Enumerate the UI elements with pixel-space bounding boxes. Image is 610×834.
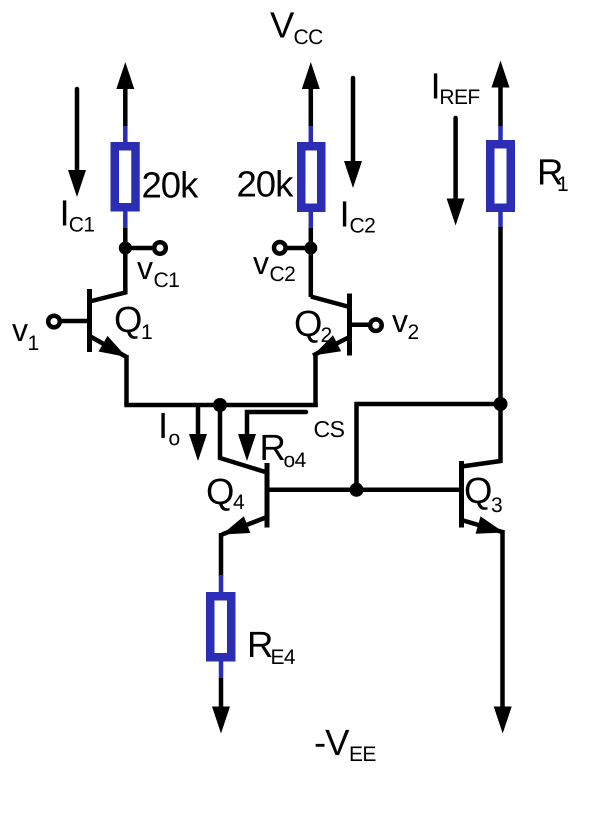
svg-text:1: 1 bbox=[557, 173, 568, 196]
wire: blue stub below R1 bbox=[498, 208, 503, 228]
svg-text:-V: -V bbox=[314, 722, 350, 763]
svg-text:I: I bbox=[158, 405, 167, 446]
wire Q1 base lead bbox=[62, 319, 90, 324]
wire Q3 collector bbox=[462, 404, 501, 467]
svg-text:v: v bbox=[12, 312, 28, 348]
current arrow I_C2 bbox=[351, 78, 356, 162]
svg-text:V: V bbox=[270, 5, 295, 46]
wire common emitter horizontal bbox=[124, 403, 317, 408]
svg-text:I: I bbox=[60, 193, 69, 234]
wire: blue stub below right 20k resistor bbox=[309, 212, 314, 229]
current arrow I_REF bbox=[453, 118, 458, 200]
svg-text:v: v bbox=[392, 303, 408, 339]
junction dot common emitter node bbox=[213, 398, 227, 412]
junction dot Q3 collector node bbox=[494, 397, 508, 411]
resistor R1 bbox=[490, 144, 511, 208]
wire from node vC2 to terminal bbox=[288, 246, 311, 251]
svg-text:I: I bbox=[340, 194, 349, 235]
current arrow I_o bbox=[196, 408, 201, 435]
svg-text:2: 2 bbox=[321, 324, 332, 347]
wire: blue stub below RE4 bbox=[219, 661, 224, 679]
wire Q4 emitter with arrow bbox=[222, 517, 267, 535]
wire: blue stub above left 20k resistor bbox=[123, 126, 128, 143]
wire: blue stub above right 20k resistor bbox=[309, 126, 314, 143]
svg-text:Q: Q bbox=[114, 299, 141, 340]
svg-text:o4: o4 bbox=[284, 449, 307, 472]
wire from right resistor down to node vC2 bbox=[309, 228, 314, 297]
svg-text:1: 1 bbox=[141, 321, 152, 344]
svg-text:Q: Q bbox=[206, 471, 233, 512]
wire base to collector tie (diode connection of Q3) bbox=[357, 404, 501, 490]
svg-text:C2: C2 bbox=[270, 263, 296, 286]
svg-text:R: R bbox=[260, 427, 285, 468]
junction dot at node vC1 bbox=[119, 242, 132, 255]
wire from node vC1 to terminal bbox=[125, 246, 152, 251]
resistor RE4 bbox=[210, 596, 231, 657]
wire Q1 emitter with arrow bbox=[90, 336, 127, 357]
wire Q2 collector bbox=[311, 297, 350, 308]
svg-text:CC: CC bbox=[294, 26, 324, 49]
wire Q2 emitter with arrow bbox=[313, 337, 350, 356]
svg-text:C1: C1 bbox=[154, 269, 180, 292]
terminal circle vC2 bbox=[274, 242, 286, 254]
resistor 20k (left, collector load of Q1) bbox=[115, 146, 136, 207]
svg-text:4: 4 bbox=[233, 491, 245, 514]
svg-text:C2: C2 bbox=[350, 215, 376, 238]
wire RE4 down to -VEE with arrow bbox=[219, 678, 224, 708]
resistor 20k (right, collector load of Q2) bbox=[301, 146, 321, 208]
svg-text:v: v bbox=[137, 250, 153, 286]
wire from left resistor down to node vC1 bbox=[123, 228, 128, 292]
terminal circle v2 bbox=[370, 319, 382, 331]
svg-text:20k: 20k bbox=[142, 165, 200, 206]
wire Q1 collector bbox=[90, 290, 126, 302]
wire Q2 emitter vertical bbox=[313, 353, 318, 407]
transistor Q3 base bar bbox=[459, 461, 464, 528]
svg-text:2: 2 bbox=[408, 321, 419, 344]
svg-text:1: 1 bbox=[28, 332, 39, 355]
transistor Q4 base bar bbox=[265, 463, 270, 528]
svg-text:v: v bbox=[253, 245, 269, 281]
wire Q2 base lead bbox=[350, 323, 369, 328]
transistor Q1 base bar bbox=[87, 289, 92, 352]
wire Q4-Q3 base bbox=[267, 488, 462, 493]
svg-text:3: 3 bbox=[491, 494, 502, 517]
svg-text:E4: E4 bbox=[271, 646, 296, 669]
wire Q4 emitter down to RE4 bbox=[219, 533, 224, 576]
svg-text:20k: 20k bbox=[237, 164, 295, 205]
wire: arrow up from right 20k resistor to VCC bbox=[309, 87, 314, 127]
svg-text:I: I bbox=[431, 66, 440, 107]
wire R1 down to Q3 collector node bbox=[498, 227, 503, 404]
wire: blue stub above R1 bbox=[498, 126, 503, 141]
wire Q1 emitter vertical bbox=[124, 355, 129, 405]
wire: blue stub below left 20k resistor bbox=[123, 211, 128, 229]
svg-text:Q: Q bbox=[294, 303, 321, 344]
wire Q3 emitter with arrow bbox=[462, 520, 505, 533]
svg-text:C1: C1 bbox=[69, 214, 95, 237]
arrow R_o4 (resistance looking into Q4 collector) bbox=[247, 412, 306, 436]
svg-text:R: R bbox=[247, 624, 272, 665]
wire Q4 collector from common emitter node bbox=[220, 405, 267, 473]
wire Q3 emitter down to -VEE with arrow bbox=[500, 530, 505, 708]
wire: arrow up from R1 to VCC bbox=[498, 85, 503, 127]
wire: arrow up from left 20k resistor to VCC bbox=[123, 87, 128, 127]
current arrow I_C1 bbox=[75, 89, 80, 172]
svg-text:EE: EE bbox=[349, 743, 376, 766]
svg-text:CS: CS bbox=[314, 416, 345, 442]
wire: blue stub above RE4 bbox=[219, 575, 224, 593]
junction dot at node vC2 bbox=[304, 242, 317, 255]
transistor Q2 base bar bbox=[347, 294, 352, 356]
svg-text:REF: REF bbox=[439, 86, 479, 109]
svg-text:Q: Q bbox=[464, 470, 491, 511]
junction dot base node bbox=[350, 483, 364, 497]
terminal circle vC1 bbox=[154, 242, 166, 254]
svg-text:o: o bbox=[169, 427, 180, 450]
terminal circle v1 bbox=[48, 316, 60, 328]
